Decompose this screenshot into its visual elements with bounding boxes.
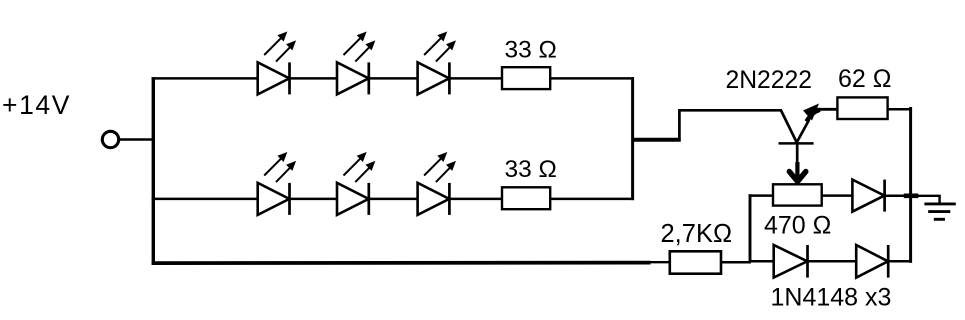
svg-text:62 Ω: 62 Ω: [838, 65, 891, 93]
svg-text:33 Ω: 33 Ω: [505, 37, 557, 64]
svg-text:2N2222: 2N2222: [726, 67, 812, 94]
svg-text:1N4148 x3: 1N4148 x3: [771, 284, 892, 312]
wire D4-D5: [290, 198, 338, 201]
LED D3: [418, 32, 456, 94]
wire terminal to bus: [120, 138, 154, 141]
LED D2: [337, 32, 375, 94]
wire R3 to right rail: [888, 108, 912, 111]
node junction: [904, 194, 919, 199]
wire top row feed: [152, 77, 259, 80]
wire base riser: [679, 110, 782, 141]
wire bus stub to base: [632, 138, 681, 142]
svg-text:470 Ω: 470 Ω: [764, 212, 831, 240]
terminal input: [102, 131, 118, 147]
diode D9 1N4148: [856, 245, 888, 278]
wire riser to R4: [749, 194, 774, 197]
resistor R1 33 ohm: [502, 67, 550, 89]
wire left bus: [152, 77, 155, 265]
wire D1-D2: [290, 77, 338, 80]
svg-text:+14V: +14V: [2, 90, 71, 120]
diode D7 1N4148: [852, 180, 884, 212]
diode D8 1N4148: [774, 245, 808, 278]
wire riser 470 row: [749, 194, 752, 261]
wire D3 to R1: [449, 77, 502, 80]
LED D6: [418, 153, 456, 215]
wire junction to D8: [749, 260, 774, 263]
LED D1: [258, 32, 296, 94]
resistor R4 470 ohm: [773, 184, 822, 205]
svg-text:2,7KΩ: 2,7KΩ: [661, 220, 733, 248]
wire right rail: [909, 107, 912, 263]
wire D5-D6: [369, 198, 418, 201]
wire R2 to right bus: [550, 198, 634, 201]
wire R5 to junction: [721, 261, 751, 264]
wire right bus: [631, 77, 634, 200]
wire collector to R3: [812, 108, 838, 111]
svg-text:33 Ω: 33 Ω: [505, 156, 557, 183]
resistor R5 2,7K ohm: [670, 251, 721, 273]
ground: [917, 196, 956, 220]
resistor R2 33 ohm: [502, 187, 550, 209]
wire R4 to D7: [822, 194, 853, 197]
LED D4: [258, 153, 296, 215]
wire D7 to ground node: [885, 195, 912, 198]
wire D6 to R2: [449, 198, 502, 201]
resistor R3 62 ohm: [837, 97, 887, 119]
wire to R5: [648, 261, 670, 263]
LED D5: [337, 153, 375, 215]
wire D8 to D9: [808, 260, 857, 263]
wire D2-D3: [369, 77, 418, 80]
wire R1 to right bus: [550, 77, 634, 80]
wire row2 feed: [152, 198, 259, 201]
wire D9 to right rail: [888, 260, 912, 263]
wire bottom rail: [152, 261, 651, 265]
transistor Q1 2N2222: [779, 104, 821, 182]
